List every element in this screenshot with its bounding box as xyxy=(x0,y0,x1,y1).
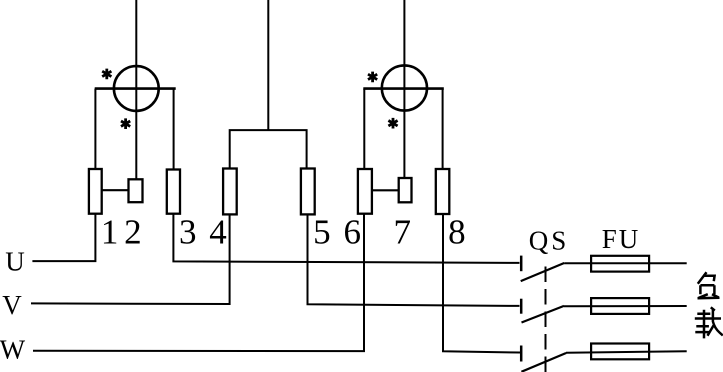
wire: horizontal current-coil bar through element 1 xyxy=(95,87,176,90)
wire: link bar over terminals 4 and 5 with drops xyxy=(230,130,307,168)
svg-text:8: 8 xyxy=(448,213,466,252)
switch QS pole 3 blade xyxy=(521,353,566,372)
svg-text:2: 2 xyxy=(124,213,142,252)
terminal 2 box xyxy=(129,179,143,202)
wire: drop from element 1 bar left end to terminal 1 xyxy=(94,89,96,169)
svg-text:1: 1 xyxy=(101,213,119,252)
switch QS pole 2 fixed contact bar xyxy=(520,299,523,314)
wire: switch pole 3 to fuse FU3 and load xyxy=(566,351,687,353)
switch QS pole 1 blade xyxy=(521,263,565,281)
asterisk polarity mark element 2 upper xyxy=(368,72,377,83)
svg-text:5: 5 xyxy=(313,213,331,252)
switch QS pole 1 fixed contact bar xyxy=(520,256,523,272)
asterisk polarity mark element 2 lower xyxy=(388,118,397,129)
wire: V phase in, from label to terminal 4 xyxy=(31,214,230,304)
wire: horizontal current-coil bar through element 2 xyxy=(363,87,444,90)
terminal 1 box xyxy=(89,169,102,214)
asterisk polarity mark element 1 lower xyxy=(121,118,130,129)
svg-text:QS: QS xyxy=(529,226,570,256)
wire: U phase out, terminal 3 down and right to switch QS pole 1 xyxy=(173,214,519,263)
fuse FU1 body xyxy=(591,256,649,272)
wire: drop from element 2 bar right end to terminal 8 xyxy=(442,89,444,169)
svg-text:W: W xyxy=(0,335,26,365)
terminal 8 box xyxy=(436,169,450,214)
svg-text:4: 4 xyxy=(209,213,227,252)
wattmeter element 1 current-coil circle xyxy=(114,66,159,111)
load label 载 (drawn glyph) xyxy=(695,307,723,338)
terminal 7 box xyxy=(399,178,412,202)
wire: drop from element 1 bar right end to terminal 3 xyxy=(173,89,175,170)
svg-text:U: U xyxy=(5,247,25,277)
wire: phase B potential lead (top vertical to link of terminals 4,5) xyxy=(267,0,269,130)
wire: link terminal 1 to terminal 2 xyxy=(102,189,129,191)
wire: phase A potential lead (top vertical into element 1 / terminal 2) xyxy=(135,0,137,179)
terminal 3 box xyxy=(167,170,180,214)
svg-text:6: 6 xyxy=(343,213,361,252)
fuse FU3 body xyxy=(591,344,649,360)
terminal 6 box xyxy=(358,169,372,214)
svg-text:V: V xyxy=(2,290,22,320)
wire: link terminal 6 to terminal 7 xyxy=(372,189,399,191)
wire: W phase out, terminal 8 down and right to switch QS pole 3 xyxy=(443,214,520,353)
switch QS pole 3 fixed contact bar xyxy=(520,346,523,362)
wire: drop from element 2 bar left end to terminal 6 xyxy=(363,89,365,169)
svg-text:7: 7 xyxy=(394,213,412,252)
terminal 5 box xyxy=(301,169,315,215)
switch QS pole 2 blade xyxy=(522,306,565,323)
wattmeter element 2 current-coil circle xyxy=(382,65,427,110)
load label 负 (drawn glyph) xyxy=(698,272,720,298)
asterisk polarity mark element 1 upper xyxy=(102,69,111,80)
svg-text:FU: FU xyxy=(602,224,641,254)
wire: U phase in, from label to terminal 1 xyxy=(32,214,95,261)
wire: W phase in, from label to terminal 6 xyxy=(33,214,364,351)
dashed mechanical linkage of QS xyxy=(545,267,547,372)
wire: phase C potential lead (top vertical into element 2 / terminal 7) xyxy=(403,0,405,178)
fuse FU2 body xyxy=(591,298,649,314)
wire: V phase out, terminal 5 down and right to switch QS pole 2 xyxy=(308,214,520,306)
svg-text:3: 3 xyxy=(179,213,197,252)
wire: switch pole 1 to fuse FU1 and load xyxy=(564,262,687,264)
terminal 4 box xyxy=(223,169,237,215)
wire: switch pole 2 to fuse FU2 and load xyxy=(564,305,687,307)
